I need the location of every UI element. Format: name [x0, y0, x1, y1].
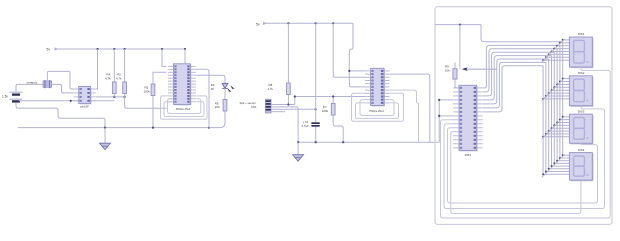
wire IC2 under-label loop 2 [356, 103, 399, 119]
wire tap IC3 row3 [439, 99, 453, 101]
wire vertical bus line 7 [542, 66, 544, 174]
resistor R5 100k [153, 72, 167, 127]
svg-text:5v: 5v [47, 48, 51, 52]
wire fan ramp display 4 [542, 155, 565, 178]
svg-text:4.7k: 4.7k [105, 76, 111, 80]
node R7 bottom [342, 141, 344, 143]
label DIS3 [578, 109, 585, 113]
node LED branch bottom [208, 127, 210, 129]
wire bus riser segment 7 [483, 66, 543, 112]
label IC2 Philips 25x4 [369, 109, 384, 113]
node rail-U0 [96, 48, 98, 50]
ic IC2 Philips 25x4 [365, 68, 390, 106]
svg-text:100k: 100k [144, 89, 151, 93]
seven segment display DIS3 [569, 114, 593, 144]
wire IC2 pin1 tap [349, 70, 365, 72]
node U0 ground [70, 100, 72, 102]
outer wire box [435, 7, 612, 225]
wire common DIS3 [448, 128, 598, 203]
svg-text:4543: 4543 [465, 153, 472, 157]
node R2 bottom [124, 96, 126, 98]
wire fan ramp display 3 [542, 116, 565, 139]
wire IC1 under-label loop 2 [164, 102, 204, 117]
node IC2 pin1 tap [348, 70, 350, 72]
node gnd tee [297, 141, 299, 143]
node C1 bottom [315, 141, 317, 143]
wire IC1 under-label loop [168, 99, 201, 114]
wire common DIS4 [451, 132, 581, 214]
wire vertical bus line 4 [551, 56, 553, 167]
label IC3 4543 [465, 153, 472, 157]
label pic16F [80, 104, 89, 108]
wire top rail middle [265, 22, 353, 24]
resistor R2 4.7k [124, 49, 126, 97]
wire fan taps display 3 [563, 116, 570, 118]
wire U0 vdd to rail [96, 49, 98, 89]
label R9 10k [445, 65, 449, 69]
ground symbol middle [297, 142, 299, 154]
wire bus riser segment 3 [483, 52, 554, 96]
wire ground rail through U0 [19, 100, 114, 102]
svg-text:IR: IR [211, 87, 214, 91]
wire battery positive to crystal [16, 84, 43, 92]
wire bus riser segment 4 [483, 56, 552, 100]
node rail-R2 [124, 48, 126, 50]
svg-text:DIS1: DIS1 [578, 32, 585, 36]
wire CN1 pin3 to C1 [271, 108, 316, 110]
wire vertical bus line 6 [545, 62, 547, 171]
wire bus riser segment 2 [483, 49, 557, 92]
ground symbol left [104, 128, 106, 143]
ic IC1 Philips 25x4 [168, 64, 196, 106]
capacitor C1 [315, 23, 317, 122]
crystal X1 ceramic resonator [43, 80, 51, 88]
wire box tap top [435, 24, 481, 26]
seven segment display DIS4 [569, 153, 593, 182]
wire mid bottom to IC3 column [438, 100, 440, 142]
svg-text:10k: 10k [445, 68, 450, 72]
label C1 4.7uF [303, 120, 309, 124]
wire common DIS2 [444, 106, 605, 209]
wire fan ramp display 1 [542, 39, 565, 62]
wire battery negative to bottom [16, 103, 105, 128]
resistor R9 10k [453, 69, 457, 79]
label DIS2 [578, 71, 585, 75]
wire vertical bus line 1 [559, 45, 561, 158]
wire fan ramp display 2 [542, 78, 565, 101]
label D4 [211, 83, 215, 87]
wire vertical bus line 3 [553, 52, 555, 163]
wire bus riser segment 0 [481, 25, 563, 42]
node rail-R7 [332, 22, 334, 24]
wire IC2 pin1 to right column [390, 74, 430, 142]
wire IC1 pin to LED [196, 75, 225, 83]
connector CN1 spk + sensor [266, 99, 272, 113]
svg-text:Philips 25x4: Philips 25x4 [176, 107, 191, 111]
wire vertical bus line 0 [562, 42, 564, 155]
wire driver feed [459, 25, 461, 69]
battery B1 1.5v [10, 92, 23, 102]
wire sensor net up to IC2 [295, 97, 365, 105]
wire IC1 under-label loop 3 [161, 96, 208, 119]
buzzer arrow [462, 67, 468, 71]
svg-text:DIS3: DIS3 [578, 109, 585, 113]
node gnd left [104, 127, 106, 129]
wire bottom rail middle [298, 141, 439, 143]
svg-text:4.7uF: 4.7uF [302, 124, 309, 128]
wire top rail left 5v [57, 48, 185, 50]
wire common DIS1 [441, 67, 611, 218]
node box tap [459, 24, 461, 26]
power terminal 5v (middle) [256, 22, 260, 26]
wire fan taps display 1 [563, 39, 570, 41]
resistor R7 100k [333, 97, 343, 143]
wire bus riser segment 1 [483, 45, 560, 88]
wire IC1 power drop b [184, 49, 186, 64]
wire vertical bus line 2 [556, 49, 558, 161]
wire rail corner to IC2 [349, 23, 365, 87]
wire IC1 power drop a [162, 49, 167, 66]
svg-text:ceramic: ceramic [27, 81, 38, 85]
led D4 infrared [222, 83, 235, 93]
resistor R4 4.7k [113, 49, 115, 97]
svg-text:220: 220 [215, 105, 220, 109]
svg-text:4.7k: 4.7k [268, 87, 274, 91]
wire IC2 under-label loop 1 [360, 100, 394, 116]
wire CN1 pin4 stub [271, 111, 285, 113]
wire tap IC3 row7 [439, 115, 453, 117]
node sensor-IC2 [294, 95, 296, 97]
label IC1 Philips 25x4 [176, 107, 191, 111]
svg-text:DIS4: DIS4 [578, 148, 585, 152]
svg-text:pic16F: pic16F [80, 104, 89, 108]
wire crystal right to U0 pin2 [52, 84, 74, 93]
resistor R8 4.7k [287, 23, 289, 104]
svg-text:4.7k: 4.7k [116, 76, 122, 80]
label DIS1 [578, 32, 585, 36]
seven segment display DIS1 [569, 37, 593, 68]
wire CN1 pin1 sensor net [271, 104, 295, 106]
resistor R7 100k net top [333, 23, 365, 77]
node rail-IC1a [161, 48, 163, 50]
node tap b [438, 115, 440, 117]
node rail-R4 [113, 48, 115, 50]
node R4 bottom [113, 96, 115, 98]
node R8 bottom [287, 103, 289, 105]
svg-text:Philips 25x4: Philips 25x4 [369, 109, 384, 113]
node rail-R8 [287, 22, 289, 24]
label DIS4 [578, 148, 585, 152]
node rail-C1 [315, 22, 317, 24]
label 1.5v [2, 95, 8, 99]
wire bottom rail left circuit [18, 127, 209, 129]
label ceramic [27, 81, 38, 85]
node R7 top [332, 95, 334, 97]
wire bus riser segment 5 [483, 59, 549, 104]
svg-text:1.5v: 1.5v [2, 95, 8, 99]
ic IC3 display driver [453, 85, 483, 151]
wire crystal top loop to U0 pin1 [47, 71, 73, 89]
wire U0 right to resistors [96, 96, 125, 98]
seven segment display DIS2 [569, 76, 593, 107]
wire CN1 pin2 to ground net [271, 107, 298, 142]
microcontroller U0 pic16F [74, 86, 96, 104]
resistor R6 220 [209, 88, 225, 127]
node tap a [438, 99, 440, 101]
svg-text:100k: 100k [322, 109, 329, 113]
wire vertical bus line 5 [548, 59, 550, 169]
wire bus riser segment 6 [483, 62, 546, 108]
wire IC1 pin to left drop [196, 69, 209, 127]
wire R2 bottom to IC1 row [125, 97, 167, 108]
power terminal 5v (left) [47, 48, 51, 52]
svg-text:5v: 5v [256, 22, 260, 26]
node rail-IC1b [184, 48, 186, 50]
svg-text:CN1: CN1 [251, 105, 257, 109]
wire IC2 under-label loop 3 [352, 93, 404, 121]
label Spk + sensor [240, 101, 256, 105]
node R5-bottom [152, 127, 154, 129]
svg-text:DIS2: DIS2 [578, 71, 585, 75]
wire fan taps display 2 [563, 78, 570, 80]
wire fan taps display 4 [563, 154, 570, 156]
node C1 top [315, 108, 317, 110]
wire IC2 right loop down [390, 90, 419, 142]
